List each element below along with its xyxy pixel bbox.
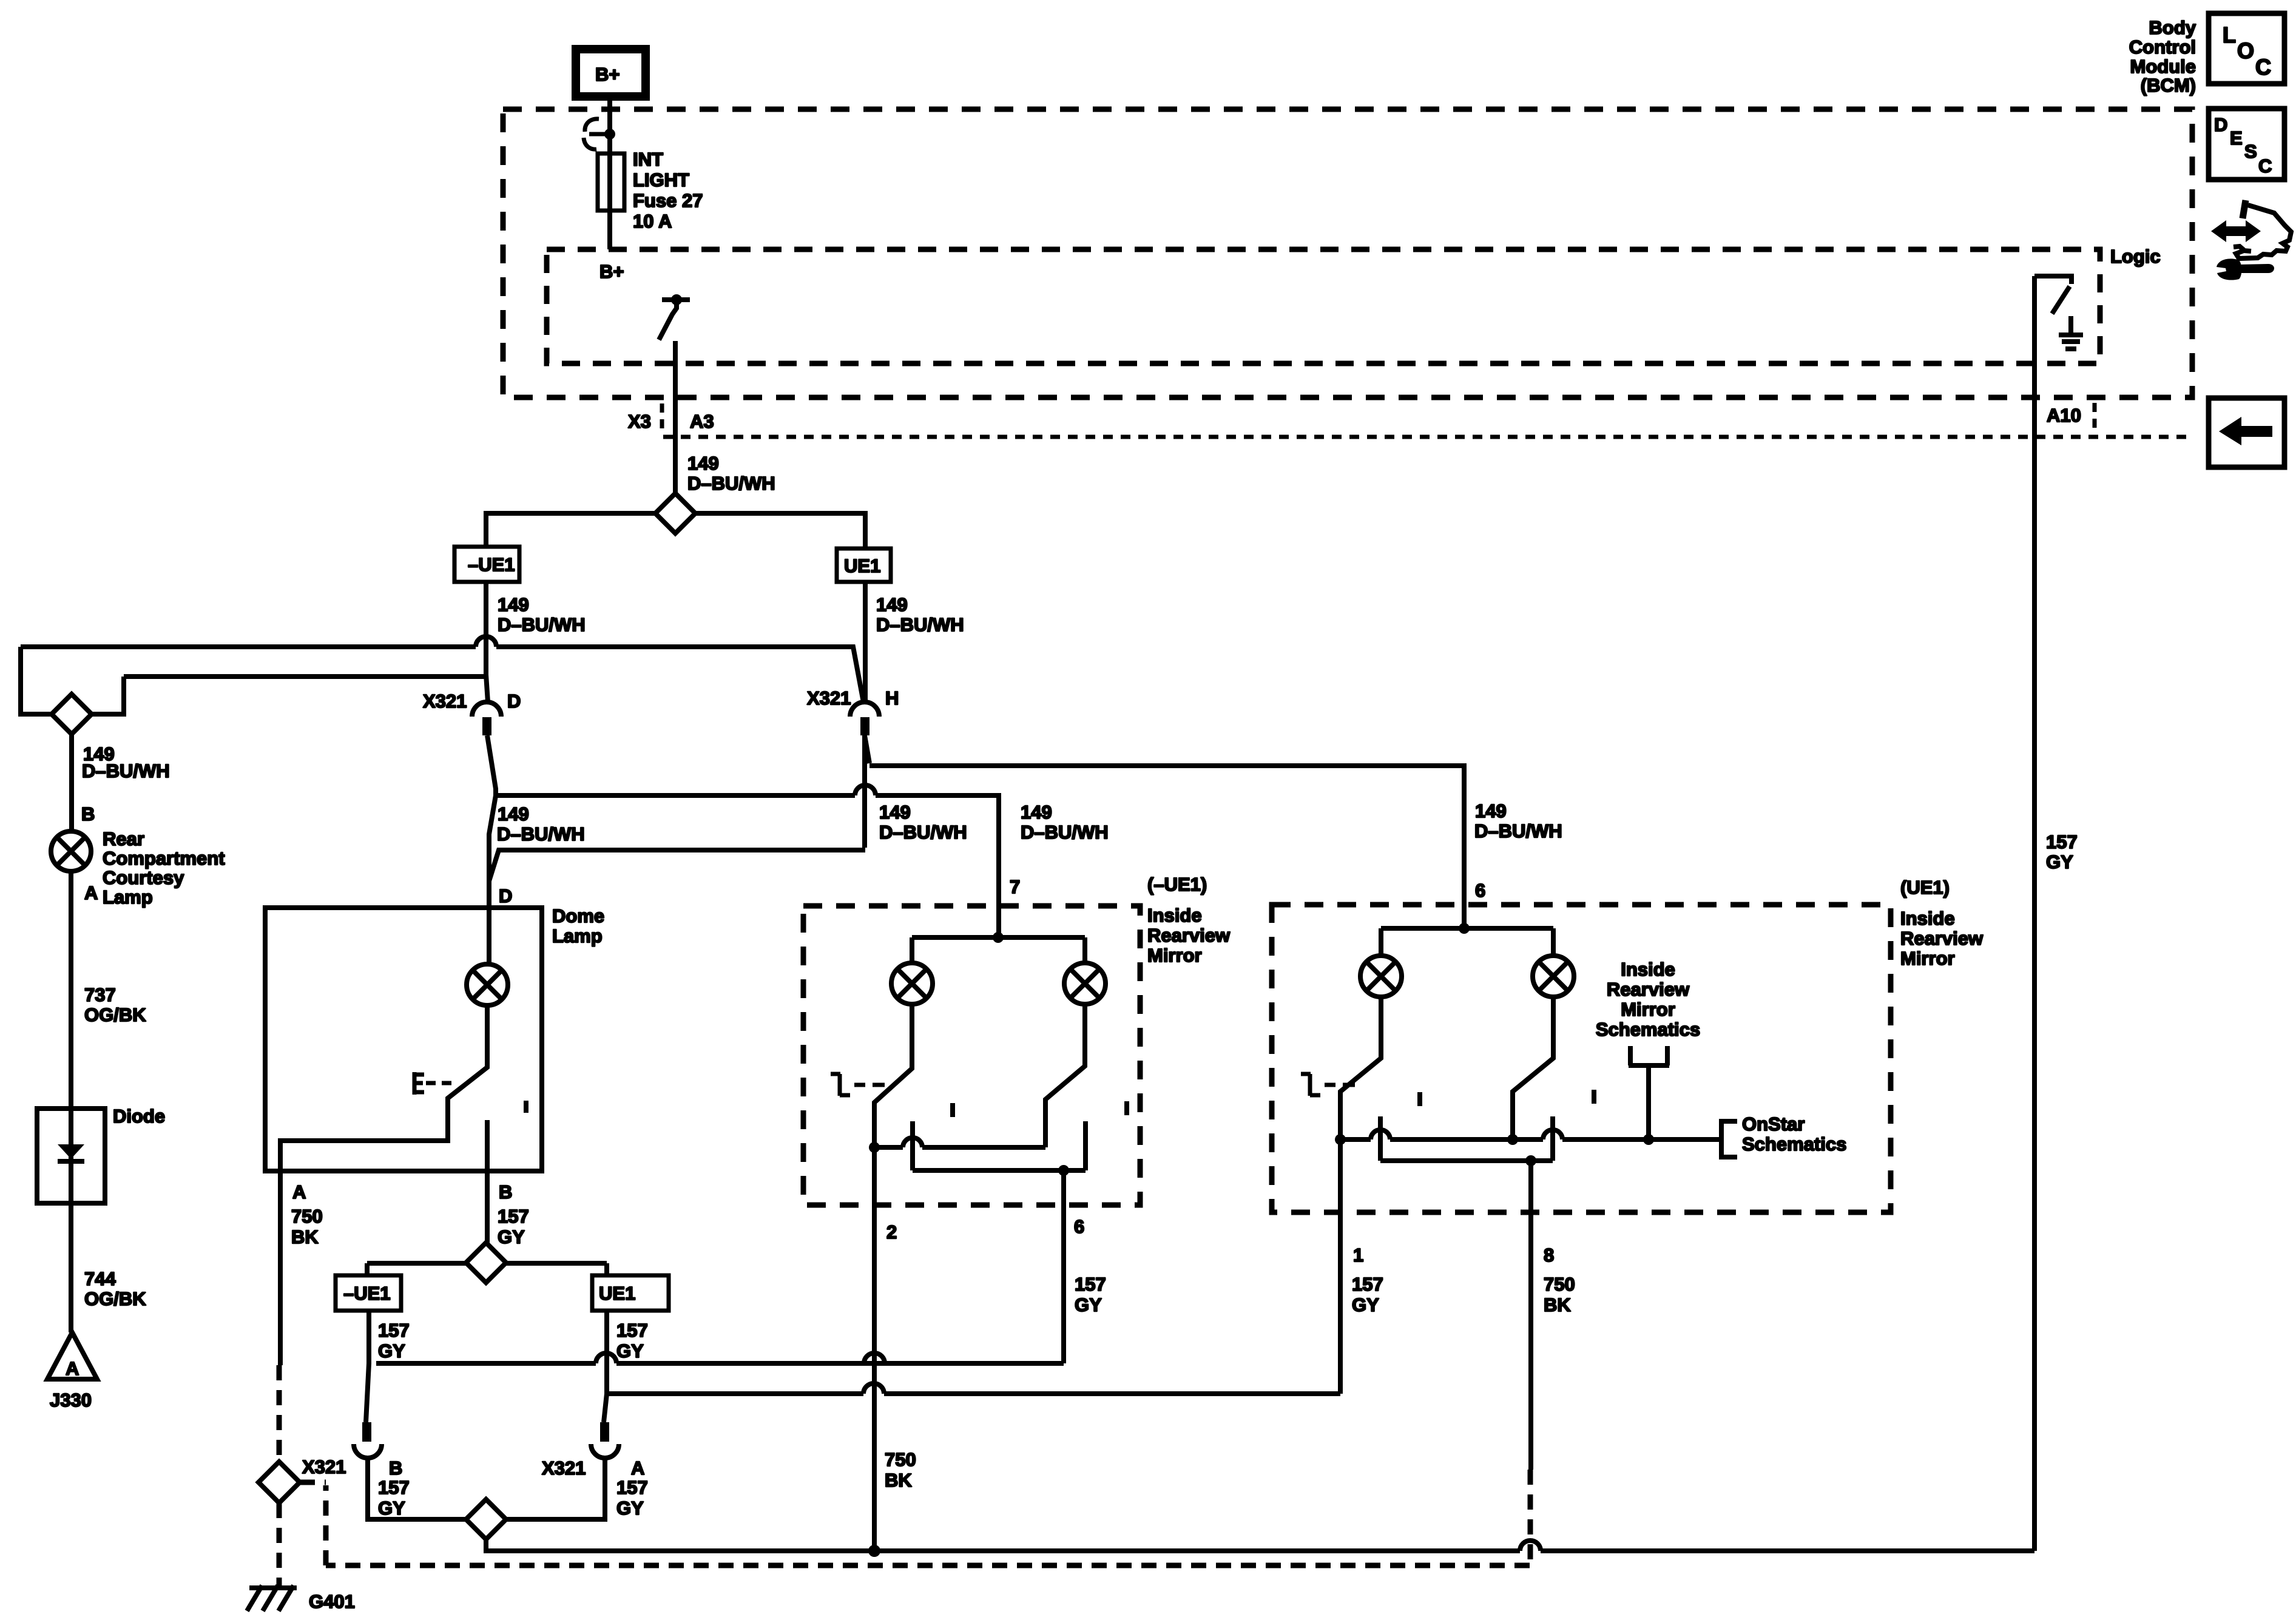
switch actuator dashed (mirror1 left) (831, 1074, 885, 1096)
svg-text:D: D (507, 690, 521, 712)
svg-text:BK: BK (885, 1470, 912, 1491)
icon LOC box (2209, 13, 2284, 84)
switch actuator dashed (dome) (414, 1072, 451, 1095)
connector X321 pin H (807, 687, 899, 735)
lamp mirror2 right map lamp (1533, 928, 1574, 997)
svg-text:INT: INT (633, 149, 663, 170)
svg-text:GY: GY (498, 1226, 525, 1247)
wire hop arc over mirror1 pin2 wire (864, 1353, 885, 1363)
wire -UE1 lower to X321 B, branch 157 bus to mirror1 pin6 (366, 1311, 369, 1422)
switch mirror1 left (874, 1004, 912, 1147)
svg-text:157: 157 (616, 1320, 648, 1341)
contact mirror1 right fixed (1083, 1121, 1088, 1170)
svg-text:Courtesy: Courtesy (103, 867, 184, 888)
label 157 GY (mirror2 pin1) (1352, 1274, 1383, 1315)
svg-text:D–BU/WH: D–BU/WH (497, 823, 585, 845)
svg-text:X321: X321 (302, 1456, 346, 1477)
svg-text:A: A (631, 1457, 644, 1479)
svg-text:1: 1 (1353, 1244, 1363, 1266)
label 750 BK (mirror1 pin2) (885, 1449, 916, 1491)
svg-text:GY: GY (378, 1497, 405, 1519)
wire mirror1 feed junction (996, 905, 1001, 937)
splice S3 diamond (157 GY from dome B) (367, 1263, 607, 1275)
contact mirror2 right fixed (1550, 1116, 1555, 1161)
switch mirror2 left (1340, 997, 1381, 1139)
icon hand with double arrow and wrench (2211, 200, 2291, 280)
svg-text:Logic: Logic (2110, 246, 2161, 267)
diode symbol (58, 1109, 84, 1203)
svg-text:Schematics: Schematics (1742, 1133, 1846, 1155)
BCM internal ground (2059, 316, 2083, 349)
svg-text:S: S (2244, 141, 2257, 162)
svg-text:750: 750 (291, 1206, 323, 1227)
wire hop arc over H wire (855, 785, 876, 795)
svg-text:149: 149 (1021, 802, 1052, 823)
label 149 D-BU/WH (UE1 branch) (876, 594, 964, 635)
label 157 GY (-UE1 lower branch) (378, 1320, 410, 1362)
wire mirror2 internal bus (hops contacts) (1340, 1137, 1721, 1142)
contact mirror2 left fixed (1378, 1116, 1383, 1161)
svg-text:UE1: UE1 (844, 555, 880, 576)
off-page fork to mirror schematics (1629, 1046, 1669, 1139)
switch mirror1 right (1045, 1004, 1085, 1147)
-UE1 option tag box (lower) (336, 1275, 401, 1311)
label 149 D-BU/WH (A3 output) (687, 453, 775, 494)
svg-text:7: 7 (1010, 876, 1020, 897)
label 157 GY (dome pin B) (498, 1206, 529, 1247)
icon back arrow box (2209, 398, 2284, 467)
svg-text:B+: B+ (599, 261, 624, 282)
svg-text:Compartment: Compartment (103, 848, 225, 869)
label 744 OG/BK (84, 1268, 146, 1309)
svg-text:Dome: Dome (552, 905, 604, 927)
svg-text:Module: Module (2130, 56, 2196, 77)
svg-text:157: 157 (378, 1477, 410, 1498)
splice S1 diamond (655, 493, 695, 533)
label 737 OG/BK (84, 984, 146, 1025)
fuse clip hook (584, 119, 599, 149)
B+ battery feed symbol (576, 49, 646, 96)
wire mirror1 internal bus (hops left contact) (874, 1145, 1045, 1150)
svg-text:149: 149 (498, 803, 529, 825)
svg-text:157: 157 (616, 1477, 648, 1498)
svg-text:D–BU/WH: D–BU/WH (876, 614, 964, 635)
svg-text:Rearview: Rearview (1607, 979, 1690, 1000)
label 157 GY (UE1 lower branch) (616, 1320, 648, 1362)
svg-text:GY: GY (1352, 1294, 1379, 1315)
wire X321 B/A to splice S2 (368, 1458, 605, 1519)
switch actuator dashed (mirror2 left) (1301, 1074, 1355, 1096)
wire mirror2 pin 1 to 157 bus (1338, 1139, 1343, 1394)
svg-text:GY: GY (616, 1340, 644, 1362)
svg-text:149: 149 (687, 453, 719, 474)
svg-text:Diode: Diode (113, 1106, 165, 1127)
svg-text:GY: GY (378, 1340, 405, 1362)
svg-text:A10: A10 (2047, 405, 2081, 426)
lamp mirror1 left map lamp (891, 937, 933, 1004)
svg-text:(BCM): (BCM) (2141, 75, 2196, 96)
lamp mirror2 left map lamp (1360, 928, 1402, 997)
BCM inner Logic dashed box (547, 249, 2100, 363)
wire hop arc over -UE1 wire (476, 636, 496, 647)
svg-text:D–BU/WH: D–BU/WH (879, 822, 967, 843)
svg-text:Inside: Inside (1621, 959, 1675, 980)
svg-text:C: C (2255, 55, 2271, 79)
wire hop arc over mirror1 pin2 wire (bus2) (863, 1383, 884, 1394)
connector X321 diamond (ground path) (258, 1462, 300, 1503)
svg-text:(–UE1): (–UE1) (1147, 874, 1207, 895)
svg-text:OG/BK: OG/BK (84, 1288, 146, 1309)
label 157 GY (X321 A below) (616, 1477, 648, 1519)
fuse INT LIGHT Fuse 27 10 A (598, 149, 703, 232)
wire mirror1 lower contact link (913, 1168, 1086, 1173)
svg-text:750: 750 (1544, 1274, 1575, 1295)
label 149 D-BU/WH (dome branch) (497, 803, 585, 845)
lamp Rear Compartment Courtesy Lamp (51, 831, 91, 871)
BCM outer dashed box (503, 109, 2192, 397)
svg-text:E: E (2230, 127, 2243, 149)
diode assembly box (37, 1106, 165, 1203)
Mirror 2 (UE1) dashed box (1272, 905, 1891, 1212)
svg-text:GY: GY (2046, 851, 2073, 873)
wire hop arc over UE1 wire (596, 1353, 616, 1363)
label Rear Compartment Courtesy Lamp (103, 828, 225, 908)
svg-text:A: A (292, 1181, 306, 1203)
label 149 D-BU/WH (-UE1 branch) (498, 594, 586, 635)
label 750 BK (mirror2 pin8) (1544, 1274, 1575, 1315)
svg-text:B: B (81, 803, 95, 825)
connector X321 pin D (423, 690, 521, 735)
splice S4 diamond (52, 694, 92, 734)
svg-text:B+: B+ (595, 64, 620, 85)
connector line X3/A3 dotted (663, 435, 2192, 439)
svg-text:Rear: Rear (103, 828, 144, 849)
svg-text:157: 157 (1352, 1274, 1383, 1295)
wire line-B courtesy splice to -UE1 wire (124, 674, 484, 679)
svg-text:8: 8 (1544, 1244, 1554, 1266)
svg-text:X321: X321 (807, 687, 851, 709)
svg-text:6: 6 (1475, 880, 1485, 901)
svg-text:OnStar: OnStar (1742, 1113, 1805, 1135)
svg-text:Mirror: Mirror (1900, 948, 1955, 969)
svg-text:UE1: UE1 (599, 1283, 635, 1304)
svg-text:X3: X3 (628, 411, 651, 432)
label 149 D-BU/WH (mirror2 pin6 drop) (1474, 800, 1562, 842)
wire pin8 ground path dashed to G401 run (326, 1470, 1530, 1565)
Body Control Module (BCM) title (2129, 17, 2196, 96)
-UE1 option tag box (454, 547, 519, 582)
svg-text:A: A (84, 882, 98, 903)
svg-text:D: D (499, 885, 512, 906)
wire mirror1 pin 6 to 157 bus (1061, 1170, 1066, 1363)
label 149 D-BU/WH (H wire) (879, 802, 967, 843)
svg-text:6: 6 (1074, 1216, 1084, 1237)
wire mirror2 pin 8 down (1528, 1161, 1533, 1470)
splice S2 diamond (466, 1499, 506, 1539)
svg-text:Inside: Inside (1147, 905, 1202, 926)
wire dome pin A to X321 ground path (278, 1171, 283, 1365)
svg-text:Rearview: Rearview (1900, 928, 1984, 949)
svg-text:157: 157 (378, 1320, 410, 1341)
svg-text:D–BU/WH: D–BU/WH (687, 473, 775, 494)
label 157 GY (X321 B below) (378, 1477, 410, 1519)
svg-text:Control: Control (2129, 36, 2196, 58)
switch mirror2 right (1513, 997, 1553, 1139)
connector X321 pin A (542, 1422, 644, 1479)
wire dome feed from pin D (487, 735, 496, 913)
svg-text:D: D (2214, 114, 2227, 135)
svg-text:B: B (389, 1457, 402, 1479)
svg-text:A3: A3 (690, 411, 714, 432)
contact mirror1 left fixed (910, 1121, 915, 1170)
svg-text:744: 744 (84, 1268, 116, 1289)
wire mirror1 pin 2 down to bottom bus (872, 1147, 877, 1551)
svg-text:J330: J330 (50, 1389, 92, 1411)
wire splice to courtesy lamp (69, 734, 74, 831)
wire 157 bottom bus to BCM A10 (hops pin8 wire) (486, 1539, 2034, 1551)
label 750 BK (dome pin A) (291, 1206, 323, 1247)
svg-text:X321: X321 (542, 1457, 586, 1479)
svg-text:–UE1: –UE1 (343, 1283, 391, 1304)
svg-text:D–BU/WH: D–BU/WH (1021, 822, 1109, 843)
wire mirror2 feed junction (1462, 905, 1467, 928)
label Inside Rearview Mirror Schematics (1596, 959, 1700, 1040)
svg-text:149: 149 (876, 594, 908, 615)
UE1 option tag box (lower) (592, 1275, 669, 1311)
svg-text:Fuse 27: Fuse 27 (633, 190, 703, 211)
svg-text:D–BU/WH: D–BU/WH (1474, 820, 1562, 842)
connector X321 pin B (354, 1422, 402, 1479)
off-page bracket OnStar (1721, 1113, 1846, 1157)
BCM interior switch (door input) (659, 294, 690, 340)
svg-text:D–BU/WH: D–BU/WH (82, 760, 170, 781)
ground G401 (247, 1585, 355, 1612)
Dome Lamp box (265, 905, 604, 1171)
label 157 GY (right edge wire to A10) (2046, 831, 2078, 873)
svg-text:OG/BK: OG/BK (84, 1004, 146, 1025)
svg-text:B: B (499, 1181, 512, 1203)
label 149 D-BU/WH (courtesy lamp) (82, 743, 170, 781)
wire dashed to G401 (277, 1503, 282, 1585)
svg-text:157: 157 (2046, 831, 2078, 852)
svg-text:149: 149 (1475, 800, 1507, 822)
wire splice horizontal to -UE1 and UE1 branches (486, 513, 865, 549)
svg-text:149: 149 (879, 802, 911, 823)
wire A10 down right edge (2032, 276, 2037, 1551)
wire fuse to logic box (607, 211, 612, 249)
wire 737 OG/BK lamp to diode (69, 871, 73, 1109)
label 149 D-BU/WH (mirror1 pin7 drop) (1021, 802, 1109, 843)
svg-text:–UE1: –UE1 (468, 554, 515, 575)
svg-text:GY: GY (1075, 1294, 1102, 1315)
svg-text:Body: Body (2149, 17, 2196, 38)
wire line-D to mirror -UE1 pin 7 (hops H wire) (496, 795, 999, 906)
ground J330 triangle (47, 1332, 97, 1411)
svg-text:Lamp: Lamp (552, 925, 603, 947)
svg-text:157: 157 (1075, 1274, 1106, 1295)
svg-text:D–BU/WH: D–BU/WH (498, 614, 586, 635)
svg-text:A: A (66, 1358, 79, 1379)
lamp mirror1 right map lamp (1064, 937, 1106, 1004)
svg-text:149: 149 (498, 594, 529, 615)
svg-text:O: O (2237, 38, 2254, 63)
wire dome pin B to splice S3 (485, 1171, 490, 1243)
wire line-A courtesy splice to UE1 branch (hops -UE1 wire) (21, 647, 863, 702)
svg-text:BK: BK (291, 1226, 319, 1247)
svg-text:H: H (885, 687, 899, 709)
wire 744 OG/BK diode to ground (69, 1203, 73, 1332)
svg-text:750: 750 (885, 1449, 916, 1470)
BCM interior switch 2 (right) (2034, 276, 2071, 314)
svg-text:157: 157 (498, 1206, 529, 1227)
wire UE1 branch down to X321 H (863, 582, 868, 701)
svg-text:Schematics: Schematics (1596, 1019, 1700, 1040)
switch dome lamp (280, 1005, 526, 1171)
icon DESC box (2209, 109, 2284, 180)
label (-UE1) Inside Rearview Mirror (1147, 874, 1231, 966)
wire mirror2 lower contact link (1380, 1158, 1553, 1163)
wire -UE1 branch down to X321 D (486, 582, 488, 702)
UE1 option tag box (837, 549, 891, 582)
svg-text:G401: G401 (309, 1591, 355, 1612)
svg-text:L: L (2223, 22, 2236, 47)
wire 149 from A3 to splice (673, 438, 678, 493)
wire B+ to fuse (607, 96, 612, 154)
svg-text:BK: BK (1544, 1294, 1571, 1315)
wire UE1 lower to X321 A, branch 157 bus to mirror2 pin1 (604, 1311, 607, 1422)
svg-text:Rearview: Rearview (1147, 925, 1231, 946)
wire line-C from pin H to mirror UE1 pin 6 (865, 735, 1464, 905)
svg-text:GY: GY (616, 1497, 644, 1519)
svg-text:(UE1): (UE1) (1900, 877, 1950, 898)
wire H pin down then line-E to dome wire (489, 735, 865, 881)
svg-text:Mirror: Mirror (1621, 999, 1675, 1020)
label (UE1) Inside Rearview Mirror (1900, 877, 1984, 969)
label 157 GY (mirror1 pin6) (1075, 1274, 1106, 1315)
svg-text:Mirror: Mirror (1147, 945, 1202, 966)
svg-text:Inside: Inside (1900, 908, 1955, 929)
svg-text:LIGHT: LIGHT (633, 169, 689, 191)
svg-text:737: 737 (84, 984, 116, 1005)
svg-text:X321: X321 (423, 690, 467, 712)
wire courtesy lamp loop left (21, 647, 124, 714)
svg-text:Lamp: Lamp (103, 886, 153, 908)
lamp dome lamp bulb (467, 908, 508, 1005)
Mirror 1 (-UE1) dashed box (803, 906, 1140, 1205)
svg-text:C: C (2258, 155, 2272, 177)
svg-text:10 A: 10 A (633, 211, 672, 232)
svg-text:2: 2 (886, 1221, 897, 1243)
wire dome pin A dashed ground path (277, 1365, 282, 1462)
wire switch to pin A3 (673, 341, 678, 493)
